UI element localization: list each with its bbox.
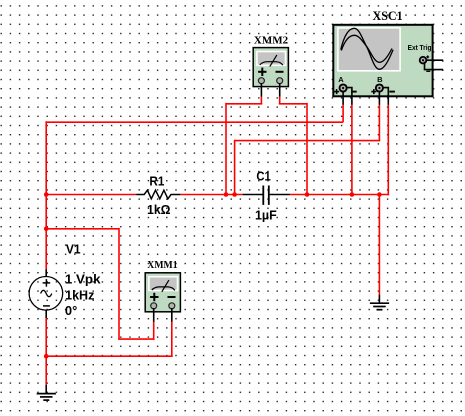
junction node B plus on main row: [232, 192, 237, 197]
wire main row middle segment (R1 to C1): [180, 194, 242, 196]
label XSC1: [373, 9, 403, 23]
wire XMM1 plus riser: [153, 321, 155, 340]
multimeter XMM1: [145, 273, 180, 312]
wire XMM2 minus lead down: [279, 96, 281, 104]
terminal A: [334, 84, 357, 94]
pin A plus stub: [342, 91, 344, 105]
svg-text:V1: V1: [66, 242, 81, 257]
label XMM1: [147, 259, 177, 271]
junction node at left rail and V1 branch: [44, 227, 49, 232]
AC source V1: [29, 270, 63, 318]
svg-text:XMM2: XMM2: [254, 34, 289, 46]
label XMM2: [254, 34, 289, 46]
wire top horizontal net from A+ to left rail: [46, 121, 343, 123]
pin B minus stub: [382, 88, 388, 105]
junction node at left rail and XMM1 minus return: [44, 354, 49, 359]
wire branch bottom horizontal to XMM1 plus: [118, 338, 154, 340]
resistor R1: [136, 190, 180, 199]
svg-text:1kHz: 1kHz: [65, 288, 95, 303]
label A channel: [338, 75, 344, 84]
svg-text:Ext Trig: Ext Trig: [408, 43, 432, 52]
wire B+ vertical drop from scope: [378, 104, 380, 140]
junction node XMM2 minus on main row: [305, 192, 310, 197]
wire A+ vertical drop from scope A terminal: [342, 104, 344, 122]
oscilloscope XSC1: [333, 25, 432, 97]
pin XMM2 plus lead stub: [260, 83, 262, 96]
wire V1 plus branch horizontal to XMM1: [46, 228, 119, 230]
value 1µF: [255, 208, 277, 223]
label B channel: [377, 75, 383, 84]
wire XMM2 plus lead down: [260, 96, 262, 104]
svg-text:B: B: [377, 75, 383, 84]
svg-text:A: A: [338, 75, 344, 84]
svg-text:1µF: 1µF: [255, 208, 277, 223]
value 1kΩ: [147, 202, 171, 217]
label Ext Trig: [408, 43, 432, 52]
wire XMM2 minus drop to main row: [306, 103, 308, 195]
ground symbol right (below main row): [370, 295, 389, 310]
value 0°: [65, 303, 77, 318]
wire XMM2 minus horizontal to x=307: [279, 103, 307, 105]
svg-text:C1: C1: [256, 169, 270, 184]
label C1: [256, 169, 270, 184]
wire ground drop from main row right node: [378, 195, 380, 295]
pin Ext Trig stub wires: [425, 60, 444, 69]
pin XMM1 minus lead stub: [171, 308, 173, 322]
pin A minus stub: [346, 88, 352, 105]
label R1: [149, 174, 164, 189]
value 1 Vpk: [65, 271, 101, 286]
wire XMM2 plus horizontal to x=226: [226, 103, 262, 105]
svg-text:R1: R1: [149, 174, 164, 189]
svg-text:XSC1: XSC1: [373, 9, 403, 23]
wire A- vertical drop from scope to main row: [351, 104, 353, 194]
svg-text:XMM1: XMM1: [147, 259, 177, 271]
wire left vertical rail down to V1 top: [45, 121, 47, 270]
terminal Ext Trig: [420, 55, 431, 71]
svg-text:1kΩ: 1kΩ: [147, 202, 171, 217]
wire B+ horizontal run to x=234.6: [235, 140, 381, 142]
pin B plus stub: [378, 91, 380, 105]
junction node XMM2 plus on main row: [224, 192, 229, 197]
junction node A minus on main row: [350, 192, 355, 197]
label V1: [66, 242, 81, 257]
capacitor C1: [243, 186, 290, 205]
wire main row right segment (C1 to B- drop): [290, 194, 389, 196]
wire XMM2 plus drop to main row: [225, 103, 227, 195]
wire main row left segment (node to R1): [45, 194, 136, 196]
multimeter XMM2: [253, 48, 288, 87]
terminal B: [371, 84, 395, 94]
svg-text:0°: 0°: [65, 303, 77, 318]
wire XMM1 minus horizontal to left rail: [46, 355, 173, 357]
pin XMM2 minus lead stub: [279, 83, 281, 96]
wire V1 bottom to ground: [45, 318, 47, 385]
wire B+ drop to main row: [234, 140, 236, 195]
wire B- vertical drop from scope to main row: [387, 104, 389, 195]
junction node at left rail and main row: [44, 192, 49, 197]
wire XMM1 minus drop: [171, 321, 173, 356]
ground symbol left (below V1): [37, 385, 56, 400]
junction node ground drop on main row: [377, 192, 382, 197]
pin XMM1 plus lead stub: [153, 308, 155, 322]
svg-text:1 Vpk: 1 Vpk: [65, 271, 101, 286]
value 1kHz: [65, 288, 95, 303]
wire branch drop x=119: [118, 228, 120, 339]
